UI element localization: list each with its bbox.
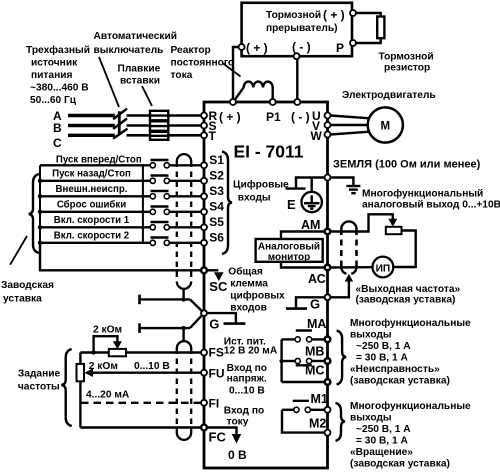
brace digital inputs [222, 152, 232, 255]
svg-text:G: G [209, 316, 219, 331]
load resistor [386, 227, 402, 234]
svg-text:Р: Р [336, 41, 344, 55]
switch S5 [151, 221, 169, 223]
svg-text:T: T [209, 129, 217, 143]
ground symbol earth [346, 186, 360, 193]
svg-text:ЗЕМЛЯ (100 Ом или менее): ЗЕМЛЯ (100 Ом или менее) [333, 159, 481, 171]
drive EI-7011 box [204, 102, 328, 468]
terminal S3 [201, 193, 207, 199]
svg-text:S2: S2 [209, 169, 224, 183]
switch S6 [151, 236, 169, 238]
wire phase A right [168, 114, 201, 117]
switch S4 [151, 205, 169, 207]
inductor DC reactor [235, 82, 273, 100]
svg-text:W: W [311, 129, 323, 143]
svg-text:(заводская уставка): (заводская уставка) [350, 459, 450, 470]
junction [91, 350, 95, 354]
switch MB [295, 358, 300, 363]
svg-text:Тормозной: Тормозной [266, 10, 321, 21]
terminal FS [201, 350, 207, 356]
svg-text:Вкл. скорости 1: Вкл. скорости 1 [54, 215, 130, 226]
wire phase B left [68, 124, 115, 127]
motor M [368, 107, 403, 142]
wire MB [312, 360, 325, 362]
terminal S [201, 123, 207, 129]
label common terminal [228, 266, 285, 314]
svg-text:Трехфазный: Трехфазный [26, 44, 90, 56]
shield cable AM/AC [341, 221, 356, 229]
svg-text:МВ: МВ [305, 345, 324, 359]
wire phase C left [68, 134, 115, 137]
svg-text:4...20 мА: 4...20 мА [86, 390, 130, 401]
leader line fuses [142, 86, 152, 106]
terminal G left [201, 310, 207, 316]
svg-text:( + ): ( + ) [323, 8, 345, 22]
wire phase A middle [127, 114, 151, 117]
svg-text:0...10 В: 0...10 В [229, 386, 265, 397]
wire phase A left [68, 114, 115, 117]
svg-text:SC: SC [209, 279, 228, 294]
wire E internal stub [296, 178, 325, 189]
svg-text:2 кОм: 2 кОм [89, 361, 118, 372]
brace M1-M2 [336, 403, 346, 441]
terminal M1 [325, 407, 331, 413]
terminal S1 [201, 162, 207, 168]
arrow 0V [207, 428, 237, 435]
fuse phase C [150, 132, 168, 140]
wire lower bar lead [138, 323, 141, 333]
fuse phase A [150, 111, 168, 121]
terminal chopper (+) bottom [239, 44, 245, 50]
label multifunction outputs 1 [350, 317, 471, 387]
terminal MC [325, 379, 331, 385]
circuit breaker pole C [114, 129, 127, 138]
svg-text:аналоговый выход 0...+10В: аналоговый выход 0...+10В [362, 200, 500, 211]
svg-text:«Выходная частота»: «Выходная частота» [356, 284, 461, 295]
wire AC to meter [330, 266, 372, 269]
svg-text:( - ): ( - ) [292, 40, 311, 54]
svg-text:~380...460 В: ~380...460 В [30, 83, 89, 94]
terminal MA [325, 337, 331, 343]
wire G to shield arrow [330, 281, 349, 297]
terminal +1 [230, 99, 236, 105]
meter IP [373, 257, 394, 278]
svg-text:прерыватель): прерыватель) [266, 23, 338, 34]
label braking resistor [379, 52, 434, 74]
svg-text:S6: S6 [209, 231, 224, 245]
svg-text:( - ): ( - ) [291, 110, 310, 124]
svg-text:2 кОм: 2 кОм [93, 325, 122, 336]
wire chopper(-) down [296, 59, 298, 100]
svg-text:Автоматический: Автоматический [94, 31, 177, 42]
switch S2 [151, 174, 169, 176]
wire S1 row [40, 164, 150, 166]
circuit breaker pole A [114, 109, 126, 118]
switch S1 [151, 159, 169, 161]
wire FU row [93, 372, 202, 374]
svg-text:Заводская: Заводская [1, 280, 54, 291]
svg-text:«Неисправность»: «Неисправность» [350, 364, 440, 375]
svg-text:= 30 В, 1 А: = 30 В, 1 А [356, 436, 408, 447]
wire phase C middle [127, 134, 151, 137]
svg-text:FU: FU [209, 367, 225, 381]
svg-text:Вкл. скорости 2: Вкл. скорости 2 [54, 231, 129, 242]
svg-text:выключатель: выключатель [94, 45, 164, 56]
svg-text:входов: входов [230, 302, 267, 313]
wire S4 row [40, 211, 150, 213]
svg-text:~250 В, 1 А: ~250 В, 1 А [356, 341, 411, 352]
wire M1 [310, 409, 324, 411]
analog monitor box [256, 239, 323, 262]
svg-text:G: G [310, 297, 320, 312]
wire load to meter [393, 231, 415, 268]
wire S3 row [40, 195, 150, 197]
junction [38, 225, 42, 229]
svg-text:Вход по: Вход по [227, 363, 267, 374]
terminal minus [294, 99, 300, 105]
svg-text:ИП: ИП [376, 264, 391, 275]
svg-text:Сброс ошибки: Сброс ошибки [57, 200, 126, 211]
wire FS row [80, 351, 201, 353]
brace frequency setting [61, 349, 71, 426]
svg-text:М2: М2 [309, 417, 326, 431]
label three-phase source [26, 44, 90, 106]
terminal W [325, 132, 331, 138]
svg-text:Внешн.неиспр.: Внешн.неиспр. [56, 184, 128, 195]
svg-text:Тормозной: Тормозной [379, 52, 434, 63]
potentiometer pot1 [109, 349, 126, 356]
wire chopper(+) to resistor [356, 13, 381, 17]
svg-text:50...60 Гц: 50...60 Гц [30, 95, 77, 106]
resistor pot2 2kOhm [77, 364, 85, 381]
svg-text:12 В 20 мА: 12 В 20 мА [224, 346, 278, 357]
terminal M2 [325, 430, 331, 436]
svg-text:Пуск назад/Стоп: Пуск назад/Стоп [52, 169, 131, 180]
label braking chopper [266, 10, 338, 34]
svg-text:0...10 В: 0...10 В [134, 361, 170, 372]
svg-text:АС: АС [308, 272, 326, 286]
brace S2-S6 [29, 174, 39, 253]
svg-text:= 30 В, 1 А: = 30 В, 1 А [356, 353, 408, 364]
svg-text:Цифровые: Цифровые [233, 179, 289, 191]
svg-text:АМ: АМ [301, 218, 320, 232]
svg-text:~250 В, 1 А: ~250 В, 1 А [356, 424, 411, 435]
shield cable S1-S6 [177, 154, 191, 161]
svg-text:выходы: выходы [350, 413, 392, 424]
svg-text:питания: питания [31, 70, 72, 81]
wire G stub right [296, 297, 325, 308]
junction [38, 241, 42, 245]
leader line breaker [99, 57, 119, 107]
wire resistor to P [356, 38, 381, 43]
wire S6 row [40, 242, 150, 244]
svg-text:FS: FS [209, 346, 224, 360]
wire M1-M2 [282, 410, 325, 433]
wire S5 row [40, 226, 150, 228]
wire FI row (dashed) [81, 402, 201, 404]
svg-text:монитор: монитор [268, 252, 311, 263]
circuit breaker linkage [118, 111, 121, 134]
terminal AM [325, 229, 331, 235]
terminal FU [201, 370, 207, 376]
svg-text:частоты: частоты [18, 382, 60, 393]
svg-text:вставки: вставки [120, 76, 160, 87]
svg-text:МС: МС [305, 364, 324, 378]
wire phase C right [168, 134, 201, 137]
terminal T [201, 132, 207, 138]
svg-text:напряж.: напряж. [227, 374, 267, 385]
svg-text:уставка: уставка [3, 294, 42, 305]
terminal +2 (P1) [270, 99, 276, 105]
svg-text:источник: источник [31, 58, 78, 69]
terminal S6 [201, 240, 207, 246]
terminal MB [325, 358, 331, 364]
label analog monitor [258, 242, 320, 264]
arrow SC [207, 269, 218, 271]
switch S3 [151, 190, 169, 192]
label multifunction outputs 2 [350, 400, 471, 470]
svg-text:Реактор: Реактор [171, 45, 211, 56]
wire monitor to AC [281, 262, 325, 268]
terminal S2 [201, 178, 207, 184]
junction [38, 179, 42, 183]
wire W to motor [330, 132, 368, 135]
braking chopper box [242, 3, 352, 56]
wire phase B right [168, 124, 201, 127]
wire left bus down [79, 353, 81, 428]
svg-text:постоянного: постоянного [171, 58, 235, 69]
wire chopper(+) to +1 terminal [233, 47, 239, 100]
svg-text:S5: S5 [209, 215, 224, 229]
terminal S4 [201, 209, 207, 215]
svg-text:тока: тока [171, 70, 193, 81]
terminal FI [201, 400, 207, 406]
wire to PE circle [311, 178, 313, 193]
svg-text:В: В [53, 121, 62, 135]
svg-text:выходы: выходы [350, 330, 392, 341]
terminal U [325, 113, 331, 119]
wire V to motor [330, 124, 368, 126]
svg-text:P1: P1 [266, 110, 281, 124]
PE symbol circle [302, 192, 322, 212]
label fuses [118, 64, 161, 87]
terminal G right [325, 294, 331, 300]
terminal E (earth) [325, 175, 331, 181]
label output frequency [356, 284, 461, 306]
wire MC [282, 381, 325, 383]
switch M1 [293, 400, 309, 402]
wire U to motor [330, 116, 368, 119]
svg-text:Многофункциональный: Многофункциональный [362, 188, 483, 200]
svg-text:(заводская уставка): (заводская уставка) [356, 295, 456, 306]
resistor braking [377, 17, 384, 39]
terminal chopper (+) top [350, 10, 356, 16]
wire phase B middle [127, 124, 151, 127]
shield cable FS/FU/FI [177, 341, 191, 348]
fuse phase B [150, 121, 168, 131]
label reactor [171, 45, 235, 81]
switch MA [296, 329, 312, 331]
svg-text:EI - 7011: EI - 7011 [233, 142, 303, 162]
wiper loop pot1 [94, 336, 118, 352]
svg-text:S1: S1 [209, 153, 224, 167]
wire S2 row [40, 180, 150, 182]
wire FC row [80, 426, 201, 428]
svg-text:Многофункциональные: Многофункциональные [350, 400, 471, 412]
svg-text:цифровых: цифровых [230, 290, 285, 302]
svg-text:М1: М1 [311, 392, 328, 406]
wire G stub [207, 313, 236, 324]
junction [38, 210, 42, 214]
svg-text:«Вращение»: «Вращение» [350, 447, 413, 458]
svg-text:Вход по: Вход по [224, 406, 264, 417]
svg-text:Задание: Задание [18, 369, 61, 380]
wire upper bar lead [138, 295, 141, 305]
svg-text:входы: входы [238, 193, 271, 204]
circuit breaker pole B [114, 119, 126, 128]
junction [38, 194, 42, 198]
svg-text:С: С [53, 136, 62, 150]
digital input label boxes [39, 165, 41, 243]
terminal chopper P [350, 40, 356, 46]
brace MA-MC [337, 331, 347, 385]
svg-text:Электродвигатель: Электродвигатель [342, 90, 436, 101]
label voltage input [227, 363, 267, 397]
wire common bus to SC [40, 243, 201, 270]
label factory setting [1, 280, 54, 305]
terminal chopper (-) [294, 53, 300, 59]
svg-text:(заводская уставка): (заводская уставка) [350, 376, 450, 387]
svg-text:( + ): ( + ) [246, 41, 268, 55]
wire MA-MC bus [280, 339, 282, 382]
svg-text:FC: FC [209, 430, 227, 445]
label source 12V [224, 337, 278, 357]
wire E terminal to earth symbol [330, 178, 353, 186]
wire AM external [330, 214, 393, 231]
terminal SC [201, 267, 207, 273]
svg-text:Е: Е [287, 197, 296, 212]
label current input [224, 406, 264, 428]
svg-text:FI: FI [209, 397, 220, 411]
svg-text:М: М [381, 121, 391, 133]
terminal R [201, 113, 207, 119]
svg-text:Аналоговый: Аналоговый [258, 242, 320, 253]
label circuit breaker [94, 31, 177, 56]
svg-text:Общая: Общая [228, 266, 263, 278]
label frequency setting [18, 369, 61, 393]
shield drain upper [182, 289, 184, 300]
terminal S5 [201, 224, 207, 230]
wire MA [312, 338, 325, 340]
svg-text:S3: S3 [209, 184, 224, 198]
svg-text:резистор: резистор [384, 63, 430, 74]
terminal FC [201, 425, 207, 431]
svg-text:МА: МА [307, 317, 326, 331]
svg-text:0 В: 0 В [228, 448, 247, 462]
svg-text:S4: S4 [209, 200, 224, 214]
terminal V [325, 122, 331, 128]
shield drain lower [182, 328, 184, 342]
svg-text:Многофункциональные: Многофункциональные [350, 317, 471, 329]
wire AM to monitor [281, 232, 325, 240]
label digital inputs [233, 179, 289, 204]
svg-text:току: току [227, 417, 249, 428]
svg-text:Плавкие: Плавкие [118, 64, 161, 75]
terminal AC [325, 265, 331, 271]
leader line reactor [223, 63, 241, 77]
leader factory setting [10, 236, 27, 265]
label multifunction analog output [362, 188, 500, 211]
svg-text:клемма: клемма [230, 279, 268, 290]
svg-text:Пуск вперед/Стоп: Пуск вперед/Стоп [56, 155, 142, 166]
svg-text:( + ): ( + ) [219, 110, 241, 124]
